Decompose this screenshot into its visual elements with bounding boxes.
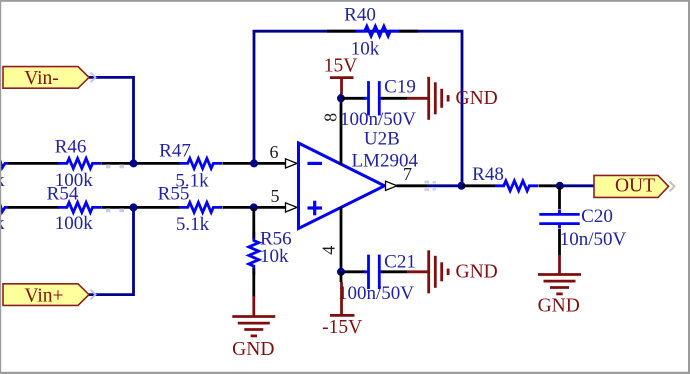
port Vin- flag [3, 67, 89, 89]
wire pin 7 to output node [397, 184, 428, 187]
ground symbol right of C19 [429, 77, 448, 120]
wire row 1 right to pin 6 [223, 162, 286, 165]
faint chevron at OUT tip [670, 182, 675, 192]
resistor R48 [495, 181, 538, 191]
ground stem right of C21 [407, 270, 428, 273]
wire C21 to ground [382, 270, 408, 273]
wire Vin+ to R54/R55 node [89, 207, 134, 294]
wire row 1 mid [102, 162, 181, 165]
wire output node to R48 [462, 184, 495, 187]
pin 5 arrow [286, 203, 298, 212]
svg-text:5.1k: 5.1k [176, 214, 210, 235]
wire 15V stem to node [340, 94, 343, 98]
svg-text:R48: R48 [472, 164, 504, 185]
op-amp U2B triangle [299, 143, 385, 229]
svg-text:100k: 100k [55, 213, 94, 234]
wire C20 to ground [558, 229, 561, 255]
svg-text:10n/50V: 10n/50V [560, 229, 627, 250]
svg-text:R47: R47 [159, 141, 191, 162]
port OUT flag [594, 175, 669, 197]
wire row 2 right to pin 5 [223, 206, 286, 209]
junction node V+ rail [337, 94, 345, 102]
resistor R47 [179, 158, 222, 168]
ground stem right of C19 [407, 97, 428, 100]
svg-text:6: 6 [270, 142, 279, 162]
wire OUT node to port [560, 184, 594, 187]
op-amp minus input mark [308, 162, 323, 165]
wire R56 bottom [252, 268, 255, 297]
junction node Vin+ [130, 203, 138, 211]
port Vin+ flag [3, 284, 89, 306]
svg-text:C20: C20 [581, 206, 613, 227]
svg-text:100n/50V: 100n/50V [338, 283, 414, 304]
power 15V bar symbol [330, 76, 354, 79]
wire left stub row 2 (clipped resistor) [0, 204, 9, 212]
wire node to C21 [341, 270, 366, 273]
svg-text:R40: R40 [344, 5, 376, 26]
svg-text:GND: GND [456, 88, 498, 109]
power -15V bar symbol [330, 314, 355, 317]
svg-text:OUT: OUT [615, 176, 655, 197]
svg-text:10k: 10k [260, 246, 289, 267]
svg-text:8: 8 [321, 113, 341, 122]
faint chevron at Vin+ tip [91, 290, 96, 300]
junction node output [458, 182, 466, 190]
junction node V- rail [337, 268, 345, 276]
svg-text:4: 4 [319, 246, 339, 255]
wire left stub row 1 (clipped resistor) [0, 160, 9, 168]
wire feedback loop top (R40 net) [254, 31, 462, 186]
svg-text:15V: 15V [324, 56, 358, 77]
junction node Vin- [130, 159, 138, 167]
ground stem under C20 [558, 255, 561, 274]
svg-text:100n/50V: 100n/50V [340, 109, 416, 130]
wire C19 to ground [382, 97, 408, 100]
svg-text:Vin+: Vin+ [24, 285, 63, 306]
svg-text:U2B: U2B [364, 129, 400, 150]
ground stem under R56 [252, 296, 255, 316]
capacitor C20 [539, 210, 579, 229]
svg-text:R55: R55 [158, 183, 190, 204]
wire node to C19 [341, 97, 366, 100]
wire row 2 mid [102, 206, 181, 209]
svg-text:5: 5 [271, 186, 280, 206]
svg-text:R46: R46 [55, 137, 87, 158]
svg-text:GND: GND [538, 295, 580, 316]
capacitor C21 [364, 255, 384, 289]
wire to output junction [427, 184, 462, 187]
pin 7 output arrow [386, 181, 398, 190]
capacitor C19 [364, 81, 384, 115]
power -15V stem [340, 272, 343, 282]
resistor R46 [58, 158, 101, 168]
pin 4 wire from op-amp to -15V node [340, 207, 343, 272]
faint chevron at Vin- tip [91, 73, 96, 83]
resistor R40 [356, 26, 399, 36]
ground symbol under R56 [232, 317, 275, 336]
resistor R40 pins [327, 30, 418, 33]
ground symbol under C20 [538, 275, 581, 294]
svg-text:7: 7 [403, 164, 412, 184]
junction node OUT [556, 182, 564, 190]
pin 8 wire from 15V node into op-amp [340, 98, 343, 164]
resistor R56 [249, 232, 259, 275]
wire R48 to OUT node [539, 184, 561, 187]
svg-text:R54: R54 [47, 183, 79, 204]
svg-text:C19: C19 [384, 76, 416, 97]
op-amp plus input mark [308, 201, 323, 216]
junction node pin5/R56 [250, 203, 258, 211]
resistor R54 [58, 202, 101, 212]
resistor R55 [179, 202, 222, 212]
wire OUT node down to C20 [558, 186, 561, 209]
ground symbol right of C21 [429, 250, 448, 293]
faint grid artifact marks [106, 164, 436, 212]
svg-text:-15V: -15V [322, 317, 362, 338]
wire row 1 left [8, 162, 59, 165]
power 15V stem [340, 78, 343, 94]
svg-text:Vin-: Vin- [24, 68, 59, 89]
svg-text:GND: GND [456, 262, 498, 283]
wire row 2 left [8, 206, 59, 209]
wire Vin- to R46/R47 node [89, 77, 134, 163]
wire R56 top [252, 207, 255, 238]
svg-text:C21: C21 [384, 252, 416, 273]
svg-text:GND: GND [232, 339, 274, 360]
junction node pin6/feedback [250, 159, 258, 167]
pin 6 arrow [286, 159, 298, 168]
